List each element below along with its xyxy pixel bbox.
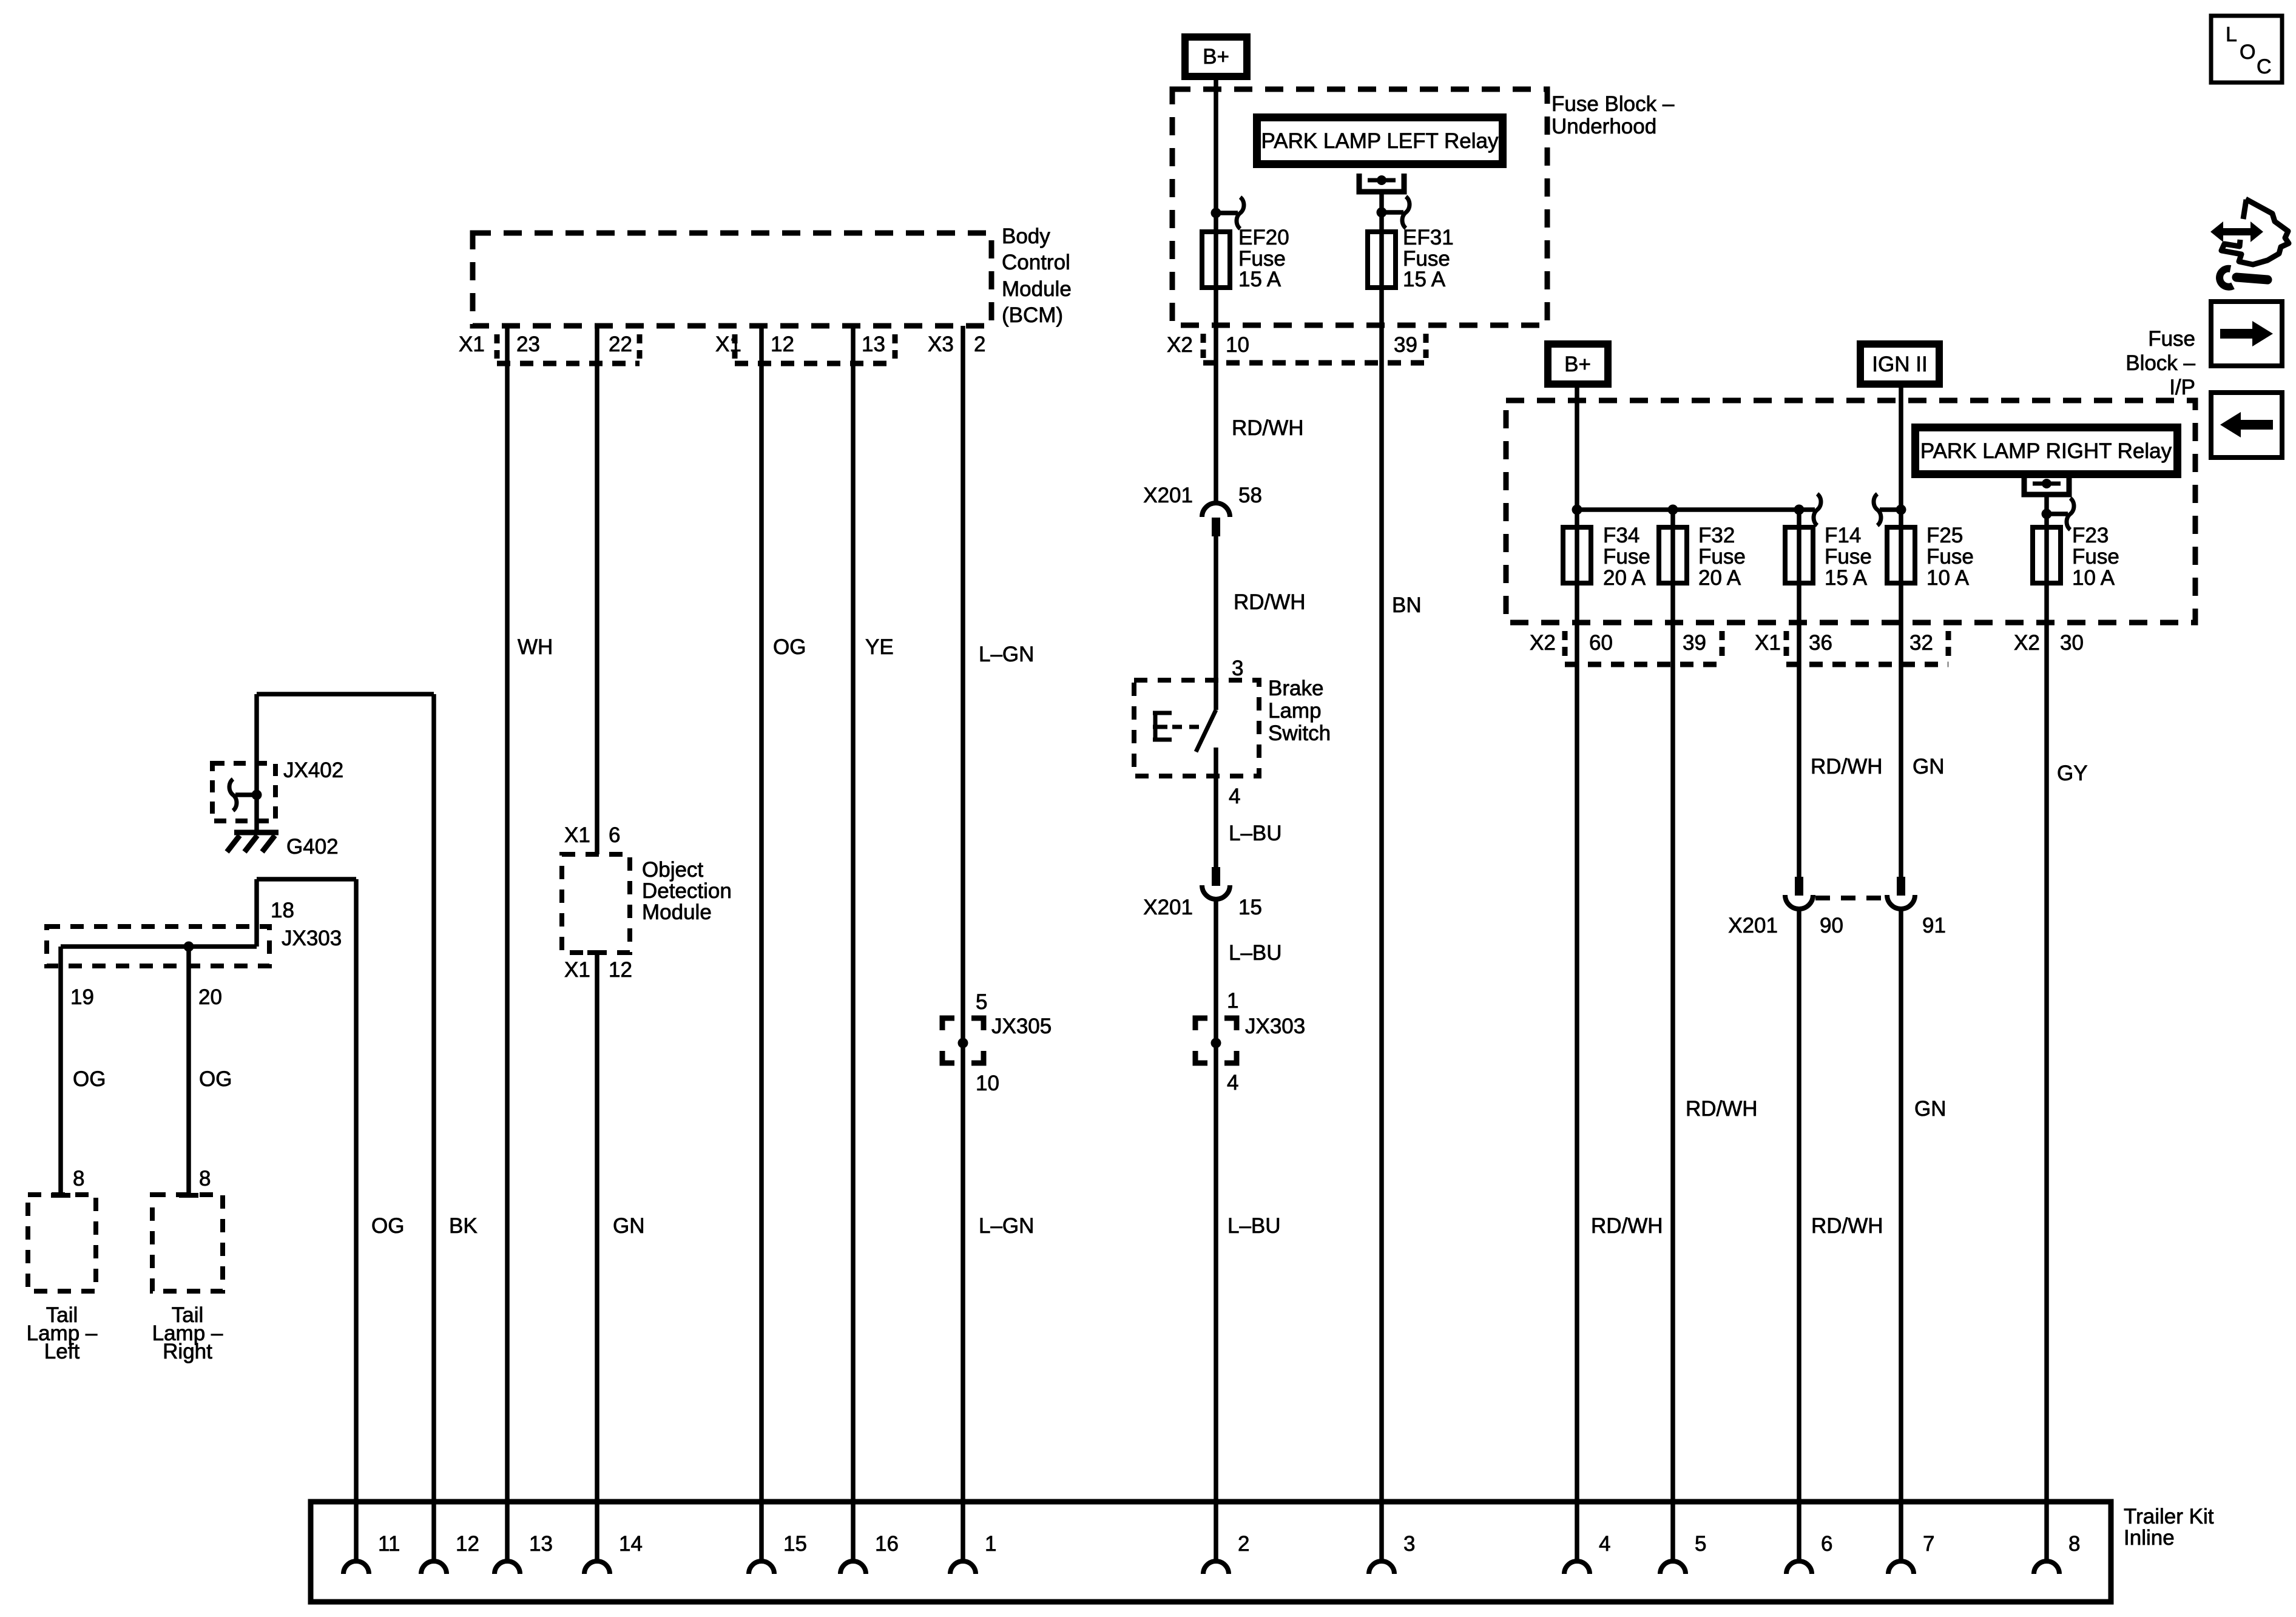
splice JX305 pin 10 label [976, 1072, 999, 1095]
svg-text:8: 8 [73, 1167, 84, 1190]
connector-service icon (double arrow, connector outline, wrench) [2210, 199, 2289, 287]
svg-text:13: 13 [862, 333, 885, 356]
wire label RD/WH (EF20 output) [1232, 416, 1304, 440]
svg-text:39: 39 [1394, 333, 1417, 357]
svg-text:RD/WH: RD/WH [1591, 1214, 1663, 1238]
underhood connector X2 pin row [1167, 333, 1426, 363]
tail lamp left pin 8 label [73, 1167, 84, 1190]
Fuse Block - Underhood label [1551, 92, 1675, 138]
svg-text:L–BU: L–BU [1229, 941, 1282, 965]
wire X201-15 to JX303 [1214, 899, 1218, 1043]
fuse F14 15A [1785, 527, 1813, 583]
svg-text:15 A: 15 A [1238, 268, 1281, 291]
wire inside JX303 to tail lamps [61, 942, 257, 952]
connector Trailer Kit Inline box [311, 1502, 2111, 1602]
svg-text:2: 2 [1238, 1532, 1249, 1556]
BCM pin labels X1 23 22 [459, 333, 632, 356]
svg-text:O: O [2240, 41, 2255, 64]
switch S1 Brake Lamp Switch box [1134, 680, 1259, 776]
splice JX402 clip (break, stub, dot) [229, 779, 262, 811]
I/P pin labels X2 60 39 [1530, 631, 1706, 655]
fuse block I/P dashed box [1506, 400, 2195, 623]
svg-text:GN: GN [1913, 755, 1945, 778]
svg-text:X2: X2 [1530, 631, 1556, 655]
svg-text:8: 8 [199, 1167, 211, 1190]
svg-text:5: 5 [1695, 1532, 1706, 1556]
wire BCM X1-12 to trailer pin 15 (OG) [759, 326, 764, 1561]
svg-text:30: 30 [2060, 631, 2084, 655]
svg-text:X201: X201 [1143, 896, 1193, 919]
wire ODM X1-12 to trailer pin 14 (GN) [587, 950, 607, 1561]
wire label L-BU (to JX303) [1229, 941, 1282, 965]
fuse F32 value label [1698, 524, 1746, 590]
svg-text:IGN II: IGN II [1872, 353, 1927, 376]
svg-text:X1: X1 [564, 823, 590, 847]
svg-text:10 A: 10 A [1926, 566, 1970, 590]
fuse F25 10A [1887, 527, 1915, 583]
wire EF31 to underhood pin 39 [1379, 288, 1384, 1561]
wire label RD/WH (F32 output) [1686, 1097, 1758, 1121]
svg-text:F23: F23 [2072, 524, 2109, 547]
svg-text:90: 90 [1820, 914, 1843, 937]
relay K2 PARK LAMP RIGHT Relay [1911, 424, 2181, 478]
svg-text:36: 36 [1809, 631, 1832, 655]
svg-text:B+: B+ [1564, 353, 1591, 376]
inline connector X201 pin 15 [1143, 867, 1262, 919]
svg-text:RD/WH: RD/WH [1811, 1214, 1883, 1238]
svg-text:18: 18 [271, 899, 294, 922]
svg-text:12: 12 [609, 958, 632, 982]
wire BCM X1-13 to trailer pin 16 (YE) [851, 326, 856, 1561]
svg-text:Brake: Brake [1268, 677, 1323, 700]
svg-text:Fuse: Fuse [1926, 545, 1974, 569]
inline connector X201 pin 90 [1728, 877, 1843, 937]
I/P connector X2 pins 60/39 sub-box [1565, 631, 1722, 664]
svg-text:WH: WH [518, 635, 553, 659]
trailer kit pin 3 [1369, 1532, 1415, 1574]
svg-text:Underhood: Underhood [1551, 115, 1656, 138]
svg-text:I/P: I/P [2169, 376, 2195, 399]
fuse EF31 value label [1403, 226, 1454, 291]
svg-text:X201: X201 [1143, 484, 1193, 507]
wire X201-90 to trailer pin 6 [1797, 909, 1801, 1561]
svg-text:7: 7 [1923, 1532, 1934, 1556]
wire F32 to trailer pin 5 (RD/WH) [1670, 583, 1675, 1561]
wire B+ to F34 [1575, 386, 1579, 583]
svg-text:Block –: Block – [2125, 351, 2195, 375]
switch S1 blade and actuator [1153, 710, 1216, 752]
power feed B+ (I/P) [1544, 340, 1612, 388]
svg-text:3: 3 [1232, 657, 1243, 680]
wire EF20 to underhood X2 pin 10 [1214, 288, 1218, 503]
svg-text:JX303: JX303 [1245, 1014, 1305, 1038]
wire label OG (tail lamp left) [73, 1067, 106, 1091]
brake lamp switch pin 3 label [1232, 657, 1243, 680]
trailer kit pin 8 [2034, 1532, 2080, 1574]
svg-text:3: 3 [1403, 1532, 1415, 1556]
splice JX402 box [212, 758, 343, 821]
tail lamp right pin 8 label [199, 1167, 211, 1190]
svg-text:X1: X1 [564, 958, 590, 982]
svg-text:20 A: 20 A [1603, 566, 1646, 590]
wire label RD/WH (F14 output) [1811, 755, 1883, 778]
svg-text:L–GN: L–GN [979, 643, 1034, 666]
svg-text:Fuse: Fuse [1825, 545, 1872, 569]
svg-text:10: 10 [1226, 333, 1249, 357]
svg-text:Left: Left [44, 1340, 80, 1363]
svg-text:EF31: EF31 [1403, 226, 1454, 249]
fuse F34 20A [1563, 527, 1591, 583]
power feed IGN II [1857, 340, 1943, 388]
svg-text:15: 15 [783, 1532, 807, 1556]
inline connector X201 pin 58 [1143, 484, 1262, 536]
fuse F23 value label [2072, 524, 2119, 590]
BCM pin labels X3 2 [928, 333, 985, 356]
wire OG to trailer pin 11 [354, 879, 359, 1561]
svg-text:19: 19 [70, 985, 94, 1009]
svg-text:Detection: Detection [642, 879, 732, 903]
fuse EF31 15A [1368, 232, 1396, 288]
module Object Detection Module pin X1-12 label [564, 958, 632, 982]
wire JX402 to ground [254, 795, 259, 832]
fuse F25 value label [1926, 524, 1974, 590]
svg-text:X1: X1 [1755, 631, 1781, 655]
wire OG riser top jog [257, 879, 356, 947]
svg-text:JX402: JX402 [283, 758, 343, 782]
svg-text:X2: X2 [1167, 333, 1193, 357]
svg-text:F32: F32 [1698, 524, 1735, 547]
fuse block I/P nav arrow (left) [2211, 393, 2282, 457]
svg-text:Lamp: Lamp [1268, 699, 1322, 723]
inline connector X201 pins 90-91 link [1815, 896, 1885, 900]
trailer kit pin 14 [584, 1532, 643, 1574]
wire label L-BU (switch output) [1229, 822, 1282, 845]
svg-text:Object: Object [642, 858, 703, 882]
wire label RD/WH (to brake lamp switch) [1234, 590, 1306, 614]
Tail Lamp - Left label [27, 1303, 98, 1363]
relay K1 PARK LAMP LEFT Relay [1253, 113, 1507, 168]
svg-text:4: 4 [1599, 1532, 1610, 1556]
wire label L-BU (to trailer kit) [1227, 1214, 1281, 1238]
splice JX303 pin 18 label [271, 899, 294, 922]
wire F32 tap [1670, 510, 1675, 583]
BCM connector X1 pins 12/13 sub-box [735, 334, 895, 363]
svg-text:10 A: 10 A [2072, 566, 2115, 590]
svg-text:X2: X2 [2014, 631, 2040, 655]
wire IGN II to F25 [1899, 386, 1903, 583]
lamp Tail Lamp - Left box [28, 1195, 96, 1291]
splice JX303 (center) [1195, 1014, 1305, 1063]
trailer kit pin 4 [1564, 1532, 1610, 1574]
Tail Lamp - Right label [152, 1303, 223, 1363]
relay K1 terminal cup [1359, 174, 1404, 192]
svg-text:Fuse: Fuse [1698, 545, 1746, 569]
svg-text:8: 8 [2068, 1532, 2080, 1556]
svg-text:11: 11 [378, 1532, 400, 1556]
I/P pin labels X2 30 [2014, 631, 2084, 655]
module Object Detection Module box [562, 854, 630, 953]
fuse F14 value label [1825, 524, 1872, 590]
svg-text:L–BU: L–BU [1227, 1214, 1281, 1238]
wire label WH [518, 635, 553, 659]
fuse block underhood dashed box [1172, 89, 1547, 325]
trailer kit pin 15 [749, 1532, 807, 1574]
wire brake switch to X201-15 [1214, 748, 1218, 867]
brake lamp switch pin 4 label [1229, 785, 1240, 808]
wire label GY [2057, 761, 2088, 785]
wire F23 to trailer pin 8 (GY) [2044, 583, 2049, 1561]
module Object Detection Module pin X1-6 label [564, 823, 620, 847]
svg-text:JX305: JX305 [991, 1014, 1052, 1038]
splice JX303 pin 4 label [1227, 1071, 1238, 1095]
svg-text:20: 20 [198, 985, 222, 1009]
svg-text:L: L [2226, 23, 2237, 46]
inline connector X201 pin 91 [1887, 877, 1946, 937]
svg-text:BK: BK [449, 1214, 478, 1238]
wire F34 to trailer pin 4 (RD/WH) [1575, 583, 1579, 1561]
lamp Tail Lamp - Right box [152, 1195, 223, 1291]
wire relay K2 cup to F23 [2044, 495, 2049, 583]
svg-text:Trailer Kit: Trailer Kit [2124, 1505, 2214, 1528]
wire label OG (BCM X1-12) [773, 635, 806, 659]
svg-text:F34: F34 [1603, 524, 1639, 547]
svg-text:F25: F25 [1926, 524, 1963, 547]
svg-text:OG: OG [773, 635, 806, 659]
svg-text:4: 4 [1229, 785, 1240, 808]
power feed B+ (top) [1181, 33, 1251, 80]
svg-text:BN: BN [1392, 593, 1422, 617]
module BCM dashed box [473, 233, 991, 326]
svg-text:23: 23 [516, 333, 540, 356]
svg-text:58: 58 [1238, 484, 1262, 507]
svg-text:Right: Right [163, 1340, 212, 1363]
svg-text:G402: G402 [286, 835, 339, 859]
wire label RD/WH (F34 output) [1591, 1214, 1663, 1238]
svg-text:F14: F14 [1825, 524, 1861, 547]
I/P pin labels X1 36 32 [1755, 631, 1933, 655]
svg-text:PARK LAMP LEFT Relay: PARK LAMP LEFT Relay [1261, 129, 1499, 153]
trailer kit pin 6 [1786, 1532, 1832, 1574]
svg-text:91: 91 [1922, 914, 1946, 937]
svg-text:Fuse: Fuse [2148, 327, 2195, 351]
wire BCM X1-22 to object detection module [595, 326, 599, 854]
wire label RD/WH (to trailer pin 6) [1811, 1214, 1883, 1238]
wire X201-91 to trailer pin 7 [1899, 909, 1903, 1561]
fuse EF20 value label [1238, 226, 1289, 291]
splice JX303 pin 19 label [70, 985, 94, 1009]
fuse F23 10A [2033, 527, 2061, 583]
I/P connector X1 pins 36/32 sub-box [1786, 631, 1948, 664]
svg-text:Module: Module [1002, 277, 1072, 301]
svg-text:(BCM): (BCM) [1002, 303, 1063, 327]
wire label OG (tail lamp right) [199, 1067, 232, 1091]
LOC reference box [2211, 16, 2282, 83]
svg-text:12: 12 [456, 1532, 479, 1556]
splice JX303 pin 20 label [198, 985, 222, 1009]
wire label GN (F25 output) [1913, 755, 1945, 778]
Body Control Module (BCM) label [1002, 224, 1072, 327]
svg-text:16: 16 [875, 1532, 899, 1556]
trailer kit pin 7 [1888, 1532, 1934, 1574]
svg-text:14: 14 [619, 1532, 643, 1556]
wire label YE [865, 635, 894, 659]
svg-text:39: 39 [1683, 631, 1706, 655]
svg-text:22: 22 [609, 333, 632, 356]
bus B+ distribution (to F34/F32/F14) [1572, 494, 1822, 525]
wire BCM X3-2 to trailer pin 1 (L-GN) [961, 326, 965, 1561]
wire JX303-20 to tail lamp right [179, 947, 198, 1198]
svg-text:GY: GY [2057, 761, 2088, 785]
trailer kit pin 1 [950, 1532, 996, 1574]
wire BK riser top jog [257, 694, 434, 795]
Fuse Block - I/P label [2125, 327, 2195, 399]
svg-text:Control: Control [1002, 251, 1070, 274]
svg-text:1: 1 [1227, 989, 1238, 1013]
svg-text:6: 6 [609, 823, 620, 847]
wire JX303 to trailer kit pin 2 [1214, 1043, 1218, 1561]
svg-text:Body: Body [1002, 224, 1050, 248]
svg-text:15 A: 15 A [1825, 566, 1868, 590]
trailer kit pin 13 [495, 1532, 553, 1574]
svg-text:5: 5 [976, 990, 987, 1014]
wire JX303-19 to tail lamp left [51, 947, 70, 1198]
wire BK to trailer pin 12 [431, 694, 436, 1561]
svg-text:20 A: 20 A [1698, 566, 1741, 590]
wire label GN (to trailer pin 7) [1914, 1097, 1947, 1121]
splice JX305 [942, 1014, 1052, 1063]
svg-text:YE: YE [865, 635, 894, 659]
svg-text:Fuse: Fuse [2072, 545, 2119, 569]
wire BCM X1-23 to trailer pin 13 (WH) [505, 326, 510, 1561]
wire label GN (ODM output) [613, 1214, 645, 1238]
svg-text:X1: X1 [459, 333, 485, 356]
svg-text:RD/WH: RD/WH [1811, 755, 1883, 778]
wire B+ to EF20 fuse [1214, 80, 1218, 288]
fuse F34 value label [1603, 524, 1650, 590]
ground G402 [227, 832, 339, 859]
Object Detection Module label [642, 858, 732, 924]
node F23 bus tap (dot, stub, break) [2042, 498, 2075, 530]
svg-text:X3: X3 [928, 333, 954, 356]
svg-text:RD/WH: RD/WH [1232, 416, 1304, 440]
wire label BN (EF31 output) [1392, 593, 1422, 617]
svg-text:RD/WH: RD/WH [1234, 590, 1306, 614]
svg-text:X1: X1 [715, 333, 741, 356]
trailer kit pin 2 [1203, 1532, 1249, 1574]
svg-text:OG: OG [199, 1067, 232, 1091]
wire F25 to X201-91 [1899, 583, 1903, 877]
fuse F32 20A [1659, 527, 1687, 583]
svg-text:Fuse Block –: Fuse Block – [1551, 92, 1675, 116]
node EF20 bus tap (dot, stub, break) [1211, 197, 1244, 229]
splice JX303 pin 1 label [1227, 989, 1238, 1013]
svg-text:4: 4 [1227, 1071, 1238, 1095]
wire F14 to X201-90 [1797, 510, 1801, 877]
svg-text:32: 32 [1909, 631, 1933, 655]
svg-text:1: 1 [985, 1532, 996, 1556]
fuse EF20 15A [1202, 232, 1230, 288]
splice JX303 (left) box [47, 927, 342, 966]
wire label L-GN (to trailer kit) [979, 1214, 1034, 1238]
svg-text:PARK LAMP RIGHT Relay: PARK LAMP RIGHT Relay [1920, 439, 2172, 463]
node EF31 bus tap (dot, stub, break) [1377, 197, 1410, 228]
trailer kit pin 16 [840, 1532, 899, 1574]
wire relay cup to EF31 fuse [1379, 192, 1384, 288]
svg-text:10: 10 [976, 1072, 999, 1095]
svg-text:6: 6 [1821, 1532, 1832, 1556]
wire label L-GN (BCM X3-2) [979, 643, 1034, 666]
wire X201-58 to brake lamp switch [1214, 536, 1218, 710]
svg-text:Module: Module [642, 900, 712, 924]
trailer kit pin 12 [421, 1532, 479, 1574]
svg-text:RD/WH: RD/WH [1686, 1097, 1758, 1121]
svg-text:L–GN: L–GN [979, 1214, 1034, 1238]
svg-text:12: 12 [771, 333, 794, 356]
svg-text:13: 13 [529, 1532, 553, 1556]
svg-text:60: 60 [1589, 631, 1613, 655]
svg-text:OG: OG [73, 1067, 106, 1091]
svg-text:15: 15 [1238, 896, 1262, 919]
svg-text:L–BU: L–BU [1229, 822, 1282, 845]
svg-text:B+: B+ [1203, 45, 1229, 69]
Trailer Kit Inline label [2124, 1505, 2214, 1550]
svg-text:OG: OG [371, 1214, 404, 1238]
wire label BK [449, 1214, 478, 1238]
Brake Lamp Switch label [1268, 677, 1331, 745]
node F25 bus tap (dot, stub, break) [1874, 494, 1906, 525]
svg-text:EF20: EF20 [1238, 226, 1289, 249]
relay K2 terminal cup [2024, 477, 2069, 495]
splice JX305 pin 5 label [976, 990, 987, 1014]
svg-text:Inline: Inline [2124, 1526, 2175, 1550]
svg-text:X201: X201 [1728, 914, 1778, 937]
fuse block I/P nav arrow (right) [2211, 302, 2282, 366]
trailer kit pin 5 [1660, 1532, 1706, 1574]
trailer kit pin 11 [343, 1532, 400, 1574]
svg-text:Switch: Switch [1268, 721, 1331, 745]
svg-text:GN: GN [1914, 1097, 1947, 1121]
svg-text:2: 2 [974, 333, 985, 356]
svg-text:C: C [2257, 55, 2272, 78]
BCM pin labels X1 12 13 [715, 333, 885, 356]
svg-text:15 A: 15 A [1403, 268, 1446, 291]
svg-text:JX303: JX303 [282, 927, 342, 950]
BCM connector X1 pins 23/22 sub-box [497, 334, 640, 363]
svg-text:GN: GN [613, 1214, 645, 1238]
svg-text:Fuse: Fuse [1603, 545, 1650, 569]
wire label OG (to trailer pin 11) [371, 1214, 404, 1238]
